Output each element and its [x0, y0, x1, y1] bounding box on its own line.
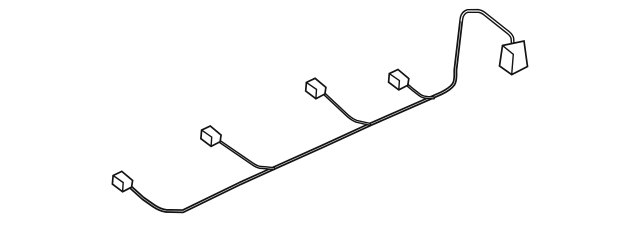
wire: main trunk outer — [131, 11, 513, 211]
wire: upper trunk white core overlay — [461, 11, 512, 42]
connector C2 body — [201, 126, 221, 146]
connector C3 body — [306, 78, 326, 98]
wire: main trunk white core — [131, 11, 513, 211]
wire: branch 2 outer — [220, 142, 274, 169]
wire: branch 4 outer — [408, 85, 434, 98]
connector C5 (large) body — [500, 41, 528, 75]
connector C4 body — [389, 70, 409, 90]
wire: branch 3 outer — [324, 94, 369, 124]
wire: branch 4 white core — [408, 85, 434, 98]
wire: branch 3 white core — [324, 94, 369, 124]
wire: branch 2 white core — [220, 142, 274, 169]
connector C1 body — [112, 171, 132, 191]
